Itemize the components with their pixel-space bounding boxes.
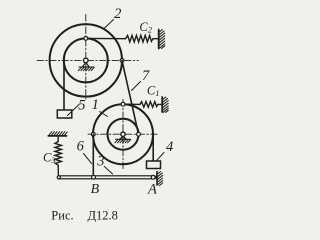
block 4 [147, 161, 161, 169]
pulley 2 outer circle [50, 24, 122, 96]
pulley 2 (upper wheel) centerline horizontal [37, 59, 139, 61]
spring C1 end link [158, 103, 162, 105]
leader line for label 7 [132, 82, 141, 91]
block 5 [57, 110, 72, 118]
spring C2 attachment line [86, 37, 126, 39]
leader line for label 1 [100, 112, 108, 117]
pulley 1 (lower wheel) centerline horizontal [88, 133, 159, 135]
node at left end of beam [57, 176, 60, 179]
svg-text:6: 6 [77, 139, 85, 155]
node at top of upper inner pulley [84, 37, 88, 41]
svg-text:5: 5 [78, 97, 85, 113]
leader line for label 2 [104, 20, 114, 30]
pulley 1 (lower wheel) centerline vertical [122, 100, 124, 171]
spring C3 coil [55, 142, 61, 166]
svg-text:C2: C2 [139, 20, 152, 35]
ceiling anchor of spring C3 [48, 132, 67, 136]
wall anchor of spring C1 [162, 97, 168, 112]
svg-text:C1: C1 [147, 84, 160, 99]
upper wheel axle support triangle [82, 63, 89, 68]
pulley 1 outer circle [93, 104, 153, 164]
spring C3 top link [57, 136, 59, 142]
lower wheel axle pin [121, 132, 125, 136]
node A at right end of beam [151, 175, 155, 179]
svg-text:Рис.: Рис. [51, 209, 73, 223]
svg-text:4: 4 [166, 139, 173, 155]
lower wheel axle support triangle [120, 136, 126, 139]
svg-text:7: 7 [142, 68, 150, 84]
pulley 1 inner circle [108, 119, 139, 150]
node on left of lower outer pulley [91, 132, 95, 136]
spring C2 end link [153, 38, 159, 40]
spring C1 coil [140, 102, 158, 108]
cord 6 from lower pulley to point B [92, 134, 94, 176]
wall anchor of spring C2 [159, 30, 165, 49]
leader line for label 4 [156, 153, 164, 161]
spring C2 coil [126, 35, 154, 42]
cord to block 4 [152, 134, 154, 161]
cord to block 5 [63, 60, 65, 110]
lower wheel axle support hatching [115, 139, 131, 143]
node on right of upper outer pulley [120, 59, 124, 63]
upper wheel axle support hatching [78, 67, 94, 71]
node at top of lower outer pulley [121, 102, 125, 106]
leader line for label 5 [68, 105, 80, 116]
pulley 2 inner circle [64, 38, 108, 82]
node on right of lower inner pulley [137, 132, 141, 136]
svg-text:1: 1 [92, 97, 99, 113]
node B on beam [92, 175, 96, 179]
pin support at A [153, 172, 162, 186]
svg-text:А: А [147, 181, 157, 197]
beam 3 (rod from spring C3 to support A) [59, 176, 154, 179]
svg-text:3: 3 [96, 154, 104, 170]
upper wheel axle pin [84, 58, 89, 63]
spring C3 bottom link [57, 165, 59, 176]
pulley 2 (upper wheel) centerline vertical [85, 15, 87, 100]
spring C1 attachment line [123, 103, 140, 105]
leader line for label 6 [84, 154, 92, 164]
svg-text:В: В [91, 182, 100, 197]
svg-text:2: 2 [114, 6, 121, 22]
leader line for label 3 [104, 166, 112, 174]
cord 7 from upper pulley to lower inner pulley [122, 60, 139, 134]
svg-text:C3: C3 [43, 150, 56, 165]
svg-text:Д12.8: Д12.8 [88, 209, 118, 223]
